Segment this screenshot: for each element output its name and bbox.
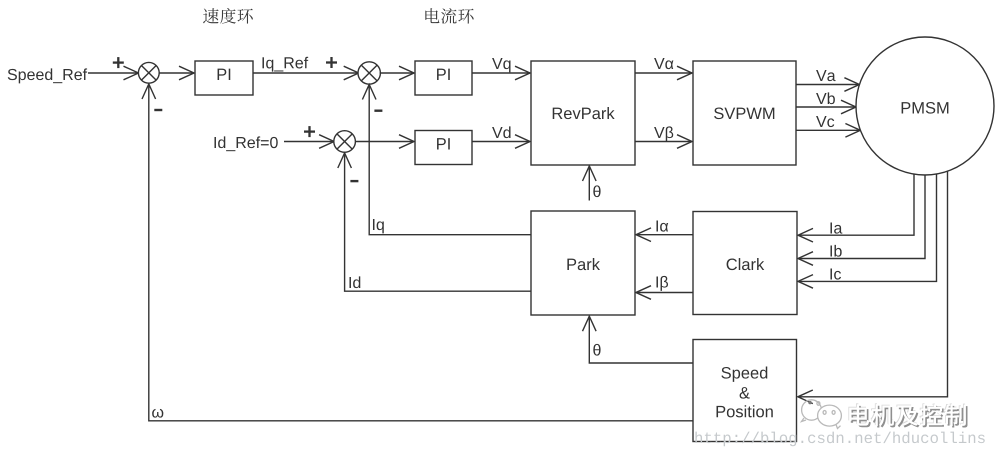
wire: Park output Iq feedback up into J2: [369, 85, 531, 235]
block SVPWM modulator: [693, 61, 796, 165]
wire: theta from Speed&Position into Park bottom: [589, 316, 693, 363]
net label Ia: [830, 222, 842, 233]
net label Iq_Ref: [262, 57, 308, 72]
net label Vd: [492, 126, 510, 138]
watermark text: motor and control (Chinese): [848, 403, 868, 424]
wire: PMSM phase b sense line down: [798, 175, 925, 259]
block PI3 d-axis current PI regulator: [415, 131, 472, 165]
net label Iq: [373, 219, 384, 233]
wire: J2 to PI q-axis regulator: [380, 72, 414, 74]
block PI2 q-axis current PI regulator: [415, 61, 472, 95]
block Speed & Position estimator: [693, 340, 797, 442]
net label theta (Park): [593, 344, 600, 356]
net label Id: [349, 276, 360, 288]
wire: PMSM phase a sense line down: [798, 174, 914, 235]
net label Vc: [816, 116, 834, 127]
net label Va: [816, 70, 835, 81]
motor PMSM: [856, 37, 994, 175]
minus sign at J2 bottom input: [374, 109, 382, 111]
label: speed loop (Chinese): [203, 8, 219, 23]
wire: omega feedback from Speed&Position up into J1: [149, 84, 693, 421]
wire: PI2 output Vq into RevPark: [472, 72, 530, 74]
wire: Clark output Ialpha into Park: [636, 234, 693, 236]
wire: J1 to PI speed regulator: [159, 72, 194, 74]
wire: PMSM rotor feedback into Speed&Position: [798, 171, 948, 397]
net label Vbeta: [654, 126, 673, 141]
wire: RevPark output Valpha into SVPWM: [635, 72, 692, 74]
net label Ib: [830, 245, 841, 257]
wire: SVPWM output Va into PMSM: [796, 84, 859, 86]
node label Id_Ref=0: [214, 136, 277, 151]
net label Ialpha: [656, 220, 668, 231]
wire: Park output Id feedback up into J3: [345, 153, 531, 291]
summing junction J2 (q-axis current error): [358, 62, 380, 84]
summing junction J3 (d-axis current error): [334, 131, 356, 153]
block RevPark inverse Park transform: [531, 61, 635, 165]
wire: Id_Ref input into J3 with plus sign: [284, 141, 334, 143]
net label Vq: [492, 58, 510, 72]
summing junction J1 (speed error): [138, 62, 159, 83]
net label omega: [152, 409, 163, 418]
wire: PI1 output Iq_Ref into J2 with plus sign: [253, 72, 359, 74]
block PI1 speed PI regulator: [195, 61, 253, 95]
wire: Speed_Ref input into J1 with plus sign: [88, 72, 139, 74]
net label Ic: [830, 268, 841, 279]
net label theta (RevPark): [593, 185, 600, 197]
watermark text: blog url: [695, 432, 984, 447]
minus sign at J3 bottom input: [350, 180, 358, 182]
watermark WeChat logo: [802, 400, 842, 429]
wire: Clark output Ibeta into Park: [636, 292, 693, 294]
wire: theta input into RevPark bottom: [588, 166, 590, 201]
minus sign at J1 bottom input: [154, 109, 162, 111]
wire: SVPWM output Vc into PMSM: [796, 129, 860, 131]
wire: RevPark output Vbeta into SVPWM: [635, 141, 692, 143]
net label Ibeta: [656, 276, 668, 291]
node label Speed_Ref: [8, 68, 87, 83]
wire: J3 to PI d-axis regulator: [355, 141, 414, 143]
block Clark transform: [693, 212, 797, 315]
wire: PI3 output Vd into RevPark: [472, 141, 530, 143]
net label Vb: [816, 92, 835, 104]
wire: SVPWM output Vb into PMSM: [796, 106, 856, 108]
block Park transform: [531, 211, 635, 315]
label: current loop (Chinese): [425, 8, 439, 23]
wire: PMSM phase c sense line down: [798, 174, 937, 281]
net label Valpha: [654, 58, 673, 69]
